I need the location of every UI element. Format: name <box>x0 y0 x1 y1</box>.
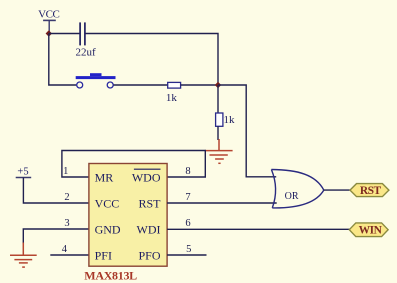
pushbutton switch S1 <box>76 73 116 88</box>
svg-text:GND: GND <box>95 222 121 236</box>
power symbol +5 <box>16 167 32 178</box>
ground (under R2) <box>205 139 233 163</box>
wire junction to OR gate top input <box>218 85 276 177</box>
svg-text:1: 1 <box>63 166 68 177</box>
wire pin 4 stub <box>50 254 89 256</box>
wire junction down to resistor R2 <box>217 85 219 113</box>
wire VCC node down to switch row <box>49 34 77 86</box>
wire pin 6 to WIN port <box>167 228 349 230</box>
power symbol VCC <box>38 8 59 33</box>
resistor R2 (vertical) <box>216 113 223 126</box>
wire switch to resistor R1 <box>114 84 168 86</box>
svg-text:PFI: PFI <box>95 248 112 262</box>
svg-text:7: 7 <box>185 192 190 203</box>
wire VCC node to capacitor <box>49 33 80 35</box>
svg-text:5: 5 <box>186 244 191 255</box>
port WIN <box>349 223 388 237</box>
svg-text:WDI: WDI <box>137 222 161 236</box>
port RST <box>350 184 389 198</box>
svg-text:+5: +5 <box>17 167 28 178</box>
IC U1 MAX813L body <box>89 164 167 267</box>
svg-text:VCC: VCC <box>38 8 59 20</box>
svg-text:MR: MR <box>95 170 114 184</box>
svg-text:2: 2 <box>64 192 69 203</box>
wire resistor R1 to junction node <box>181 84 218 86</box>
svg-text:1k: 1k <box>224 114 236 126</box>
wire MR loop (pin1 to pin8 over the IC) <box>62 151 205 178</box>
svg-text:6: 6 <box>185 218 190 229</box>
junction at node B <box>215 82 221 88</box>
svg-text:MAX813L: MAX813L <box>84 269 137 283</box>
svg-text:WDO: WDO <box>132 170 161 184</box>
wire pin 5 stub <box>167 254 206 256</box>
svg-text:8: 8 <box>185 166 190 177</box>
svg-text:3: 3 <box>64 218 69 229</box>
svg-text:OR: OR <box>285 191 299 202</box>
junction at VCC node <box>46 30 52 36</box>
wire pin 7 to OR gate lower input <box>167 202 277 204</box>
wire pin 3 to ground <box>23 229 89 244</box>
capacitor C1 22uf <box>80 22 85 45</box>
svg-text:1k: 1k <box>166 92 178 104</box>
wire +5 to pin 2 <box>23 178 89 204</box>
svg-text:22uf: 22uf <box>76 47 97 59</box>
resistor R1 (horizontal) <box>168 82 181 88</box>
OR gate U2 <box>271 170 323 208</box>
svg-text:WIN: WIN <box>359 225 383 237</box>
wire OR gate output to RST port <box>324 189 350 191</box>
svg-text:RST: RST <box>138 196 161 210</box>
svg-text:RST: RST <box>360 185 382 197</box>
svg-text:PFO: PFO <box>138 248 160 262</box>
wire capacitor to top-right corner <box>86 34 219 86</box>
svg-text:VCC: VCC <box>95 196 120 210</box>
ground (left, at pin 3) <box>10 243 37 268</box>
wire resistor R2 to ground <box>217 126 219 140</box>
svg-text:4: 4 <box>62 244 68 255</box>
